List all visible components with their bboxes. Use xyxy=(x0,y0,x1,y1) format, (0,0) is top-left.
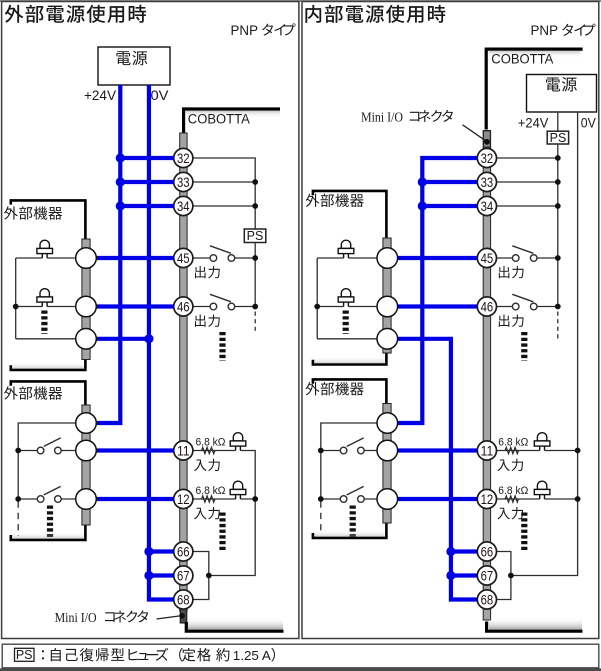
bottom dark edge xyxy=(0,668,601,671)
pin 46 (left) xyxy=(174,297,193,316)
fuse PS box (left) xyxy=(244,229,265,243)
external device box 2 frame (right) xyxy=(313,379,387,538)
svg-text:0V: 0V xyxy=(581,114,597,130)
svg-text:68: 68 xyxy=(177,592,190,607)
junction +24V/pin32 xyxy=(116,153,125,162)
Mini I/O pointer (left) xyxy=(157,616,180,619)
wire t3low-pin12 blue (right) xyxy=(397,497,477,501)
pin 46 (right) xyxy=(477,297,496,316)
pin 33 (left) xyxy=(174,172,193,191)
shadow above box2 bottom (right) xyxy=(315,530,385,537)
device bar 2 (left) xyxy=(82,405,90,525)
output switch 45 xyxy=(210,246,235,261)
wire 0V vertical (left) xyxy=(149,85,174,600)
pin 66 (right) xyxy=(477,542,496,561)
junction rail/33 xyxy=(252,179,258,185)
svg-text:11: 11 xyxy=(481,443,494,458)
label output 46 (left) xyxy=(195,314,220,326)
dashed PS rail continuation (right) xyxy=(557,312,559,340)
svg-text:6.8 kΩ: 6.8 kΩ xyxy=(498,436,528,448)
svg-text:12: 12 xyxy=(177,492,190,507)
lamp L2 xyxy=(37,289,53,307)
terminal t2 (left box2) xyxy=(76,440,97,461)
continuation marks below input12 (left) xyxy=(219,513,225,553)
junction rail/45 xyxy=(252,255,258,261)
footer PS symbol xyxy=(15,648,35,661)
dashed PS rail continuation (left) xyxy=(254,312,256,334)
pin 68 (left) xyxy=(174,590,193,609)
shadow above box2 bottom (left) xyxy=(13,532,84,539)
svg-text:6.8 kΩ: 6.8 kΩ xyxy=(196,436,226,448)
svg-text:1.25 A: 1.25 A xyxy=(233,648,271,663)
svg-text:66: 66 xyxy=(177,544,190,559)
COBOTTA boundary (right) xyxy=(486,49,582,129)
wire t3 row (left) xyxy=(16,338,76,340)
svg-text:46: 46 xyxy=(481,299,494,314)
continuation marks below lamp2 (right) xyxy=(343,311,349,335)
svg-text:34: 34 xyxy=(481,199,494,214)
svg-text:11: 11 xyxy=(177,443,190,458)
continuation marks below lamp2 xyxy=(41,311,47,335)
junction rail/33 (right) xyxy=(555,179,561,185)
continuation marks below output46 (left) xyxy=(219,332,225,361)
external device 2 label (left) xyxy=(4,386,62,399)
wire 66-68 bracket (left) xyxy=(193,552,209,600)
wire pin32 blue xyxy=(120,156,174,160)
wire switch1 row (left) xyxy=(18,450,75,452)
wire switch46 (left) xyxy=(193,306,255,308)
wire input11 (left) xyxy=(193,451,255,576)
resistor 6.8k pin12 (right) xyxy=(505,496,518,502)
wire pin34 blue xyxy=(120,204,174,208)
wire 66-68 bracket (right) xyxy=(497,552,511,600)
external device box 1 frame (right) xyxy=(313,191,387,365)
wire lamp1 row (right) xyxy=(317,258,377,339)
wire switch45 (left) xyxy=(193,257,255,259)
output switch 46 (right) xyxy=(512,294,537,310)
label output 46 (right) xyxy=(499,314,524,326)
wire lamp1 row (left) xyxy=(16,258,76,339)
PS rail lower (left) xyxy=(254,243,256,307)
junction rail/46 (right) xyxy=(555,304,561,310)
resistor 6.8k pin11 (right) xyxy=(505,447,518,453)
external device box 2 frame (left) xyxy=(11,381,86,540)
shadow under COBOTTA line (right) xyxy=(489,51,581,58)
svg-text:+24V: +24V xyxy=(518,114,549,130)
Mini I/O plug (left) xyxy=(180,609,187,624)
shadow above box1 bottom (left) xyxy=(13,362,84,369)
svg-text:68: 68 xyxy=(481,592,494,607)
wire t1-pin45 blue xyxy=(96,256,174,260)
wire lamp2 row (left) xyxy=(16,306,76,308)
junction rail/switch1 (left) xyxy=(15,448,21,454)
footer note text xyxy=(42,650,44,659)
switch S2 (left) xyxy=(37,486,61,502)
power supply box (right) xyxy=(527,75,597,113)
junction rail/45 (right) xyxy=(555,255,561,261)
junction rail/switch2 (right) xyxy=(318,496,324,502)
switch S1 (right) xyxy=(340,438,364,454)
continuation marks below input12 (right) xyxy=(521,513,527,553)
junction lampreturn/12 (left) xyxy=(252,496,258,502)
bottom boundary (right) xyxy=(487,622,583,632)
junction rail/34 (right) xyxy=(555,203,561,209)
switch S2 (right) xyxy=(340,486,364,502)
svg-text:PS: PS xyxy=(550,131,567,145)
junction bracket/67 (right) xyxy=(508,573,514,579)
junction rail/lamp2 (left) xyxy=(13,304,19,310)
svg-text:PS: PS xyxy=(247,229,264,243)
svg-text:32: 32 xyxy=(177,151,190,166)
pin 67 (right) xyxy=(477,566,496,585)
terminal t3 (right box1) xyxy=(377,329,398,350)
Mini I/O connector bar (right) xyxy=(483,131,490,621)
lamp L2 (right) xyxy=(338,289,354,307)
junction 0V/t3 xyxy=(144,334,153,343)
junction 0V/11 (right) xyxy=(575,448,581,454)
title: internal power use xyxy=(305,5,445,23)
wire switch46 (right) xyxy=(497,306,558,308)
wire pin34 blue (right) xyxy=(422,204,477,208)
wire 0V internal (right) xyxy=(511,112,578,576)
svg-text:45: 45 xyxy=(481,251,494,266)
wire busB-pin66 blue (right) xyxy=(451,549,477,553)
svg-text:32: 32 xyxy=(481,151,494,166)
lamp pin12 (right) xyxy=(534,481,550,499)
title: external power use xyxy=(5,5,146,23)
junction rail/lamp2 (right) xyxy=(314,304,320,310)
junction bracket/67 (left) xyxy=(206,573,212,579)
wire lamp2 row (right) xyxy=(317,306,377,308)
pin 33 (right) xyxy=(477,172,496,191)
junction 0V/pin66 xyxy=(144,547,153,556)
pin 45 (right) xyxy=(477,248,496,267)
wire switch2 row (right) xyxy=(321,498,377,500)
svg-text:+24V: +24V xyxy=(84,87,117,103)
wire pin34 rail (right) xyxy=(497,205,558,207)
wire pin32 rail (right) xyxy=(497,157,558,159)
pin 66 (left) xyxy=(174,542,193,561)
device bar 1 (left) xyxy=(82,239,90,360)
pin 45 (left) xyxy=(174,248,193,267)
shadow above box1 bottom (right) xyxy=(315,357,385,364)
junction 0V/12 (right) xyxy=(575,496,581,502)
fuse PS box (right) xyxy=(547,131,568,144)
pin 11 (left) xyxy=(174,441,193,460)
svg-text:45: 45 xyxy=(177,251,190,266)
terminal t3 (left box1) xyxy=(76,329,97,350)
wire t1-pin45 blue (right) xyxy=(397,256,477,260)
resistor 6.8k pin11 (left) xyxy=(202,447,215,453)
lamp pin11 (right) xyxy=(534,433,550,451)
wire t2low-pin11 blue (right) xyxy=(397,448,477,452)
wire pin33 blue xyxy=(120,180,174,184)
lamp L1 xyxy=(37,240,53,258)
pin 34 (right) xyxy=(477,196,496,215)
junction rail/switch1 (right) xyxy=(318,448,324,454)
wire t3low-pin12 blue xyxy=(96,497,174,501)
device bar 1 (right) xyxy=(383,238,391,353)
COBOTTA boundary (left) xyxy=(184,109,280,133)
terminal t3 (left box2) xyxy=(76,489,97,510)
svg-text:COBOTTA: COBOTTA xyxy=(491,51,553,66)
wire switch1 row (right) xyxy=(321,450,377,452)
wire t3 row (right) xyxy=(317,338,377,340)
shadow above bottom boundary (right) xyxy=(489,618,582,630)
wire t1 row (right box2) xyxy=(321,423,377,499)
wire t2-pin46 blue (right) xyxy=(397,304,477,308)
lamp pin11 (left) xyxy=(230,433,246,451)
terminal t3 (right box2) xyxy=(377,489,398,510)
left panel border xyxy=(2,2,299,639)
terminal t1 (left box1) xyxy=(76,248,97,269)
terminal t2 (left box1) xyxy=(76,296,97,317)
terminal t1 (left box2) xyxy=(76,413,97,434)
pin 68 (right) xyxy=(477,590,496,609)
shadow under COBOTTA line (left) xyxy=(186,111,280,118)
continuation marks below switch2 (right) xyxy=(350,506,356,538)
wire pin33 blue (right) xyxy=(422,180,477,184)
external device 1 label (left) xyxy=(4,206,62,219)
wire t2-pin46 blue xyxy=(96,304,174,308)
wire input11 (right) xyxy=(497,450,578,452)
wire input12 (right) xyxy=(497,498,578,500)
continuation marks below switch2 (left) xyxy=(47,506,53,538)
svg-text:67: 67 xyxy=(481,568,494,583)
terminal t1 (right box2) xyxy=(377,413,398,434)
output switch 45 (right) xyxy=(512,246,537,261)
external device 1 label (right) xyxy=(306,194,364,207)
junction +24V/pin33 xyxy=(116,177,125,186)
switch S1 (left) xyxy=(37,438,61,454)
svg-text:33: 33 xyxy=(177,175,190,190)
terminal t2 (right box1) xyxy=(377,296,398,317)
wire switch45 (right) xyxy=(497,257,558,259)
junction 0V/pin67 xyxy=(144,571,153,580)
continuation marks below output46 (right) xyxy=(521,332,527,361)
svg-text:6.8 kΩ: 6.8 kΩ xyxy=(196,485,226,497)
svg-text:Mini I/O: Mini I/O xyxy=(361,110,403,125)
svg-text:33: 33 xyxy=(481,175,494,190)
svg-text:6.8 kΩ: 6.8 kΩ xyxy=(498,485,528,497)
wire +24V vertical (left) xyxy=(96,85,120,423)
label input 12 (left) xyxy=(194,507,220,519)
label output 45 (right) xyxy=(499,266,524,278)
junction busB/67 xyxy=(446,571,455,580)
pin 32 (right) xyxy=(477,148,496,167)
svg-text:66: 66 xyxy=(481,544,494,559)
svg-text:Mini I/O: Mini I/O xyxy=(55,611,97,626)
lamp L1 (right) xyxy=(338,240,354,258)
label input 11 (left) xyxy=(194,459,220,471)
output switch 46 xyxy=(210,294,235,310)
pin 32 (left) xyxy=(174,148,193,167)
resistor 6.8k pin12 (left) xyxy=(202,496,215,502)
top gray edge xyxy=(0,0,601,2)
junction +24V/pin34 xyxy=(116,201,125,210)
wire t3-0V blue xyxy=(96,337,149,341)
label input 12 (right) xyxy=(497,507,523,519)
svg-text:PNP: PNP xyxy=(531,22,559,38)
terminal t1 (right box1) xyxy=(377,248,398,269)
power supply box (left) xyxy=(98,47,170,85)
wire switch2 row (left) xyxy=(18,498,75,500)
wire t2low-pin11 blue xyxy=(96,448,174,452)
pin 67 (left) xyxy=(174,566,193,585)
wire 0V-pin66 blue xyxy=(149,549,174,553)
Mini I/O pointer (right) xyxy=(463,125,486,141)
wire blue bus B (right) xyxy=(397,339,477,600)
svg-text:46: 46 xyxy=(177,299,190,314)
wire pins32-34 to PS rail xyxy=(193,158,255,229)
junction busA/33 xyxy=(418,177,427,186)
junction busB/66 xyxy=(446,547,455,556)
svg-text:COBOTTA: COBOTTA xyxy=(188,111,250,126)
svg-text:34: 34 xyxy=(177,199,190,214)
terminal t2 (right box2) xyxy=(377,440,398,461)
wire blue bus A (right) xyxy=(397,158,477,423)
label output 45 (left) xyxy=(195,266,220,278)
svg-text:12: 12 xyxy=(481,492,494,507)
wire input12 (left) xyxy=(193,498,255,500)
svg-text:PNP: PNP xyxy=(231,22,259,38)
wire +24V internal (right) xyxy=(557,112,559,131)
junction rail/46 xyxy=(252,304,258,310)
bottom boundary (left) xyxy=(186,622,283,631)
junction rail/34 xyxy=(252,203,258,209)
pin 34 (left) xyxy=(174,196,193,215)
external device box 1 frame (left) xyxy=(11,200,86,370)
svg-text:PS: PS xyxy=(16,648,33,662)
wire busB-pin67 blue (right) xyxy=(451,573,477,577)
external device 2 label (right) xyxy=(306,382,364,395)
device bar 2 (right) xyxy=(383,404,391,524)
power supply label xyxy=(116,51,147,66)
dashed rail continuation (right box2) xyxy=(320,502,322,535)
pin 12 (left) xyxy=(174,489,193,508)
shadow above bottom boundary (left) xyxy=(188,618,283,630)
PS rail (right) xyxy=(557,144,559,307)
junction rail/32 (right) xyxy=(555,155,561,161)
dashed rail continuation (left box2) xyxy=(17,502,19,537)
svg-text:67: 67 xyxy=(177,568,190,583)
right panel border xyxy=(302,2,599,639)
footer box xyxy=(2,644,599,668)
Mini I/O plug (right) xyxy=(483,131,490,147)
wire 0V-pin67 blue xyxy=(149,573,174,577)
power supply label (right) xyxy=(546,77,577,92)
pin 12 (right) xyxy=(477,489,496,508)
wire t1 row (left box2) xyxy=(18,423,75,499)
svg-text:0V: 0V xyxy=(151,87,170,103)
wire pin33 rail (right) xyxy=(497,181,558,183)
pin 11 (right) xyxy=(477,441,496,460)
lamp pin12 (left) xyxy=(230,481,246,499)
junction rail/switch2 (left) xyxy=(15,496,21,502)
Mini I/O connector bar (left) xyxy=(180,133,187,611)
junction busA/34 xyxy=(418,201,427,210)
label input 11 (right) xyxy=(497,459,523,471)
